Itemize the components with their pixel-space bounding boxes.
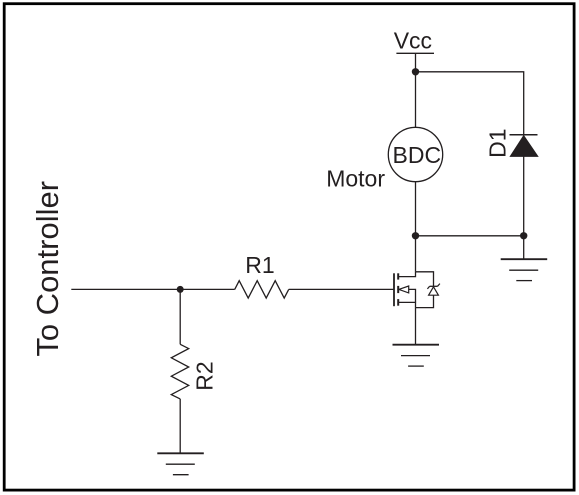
gate bar <box>393 273 395 306</box>
resistor R1 <box>235 281 289 298</box>
ground (under R2) <box>157 453 204 474</box>
body arrow <box>399 286 409 293</box>
ground (under Q1 source) <box>393 345 440 366</box>
body diode return wire <box>416 295 434 307</box>
diode D1 <box>510 135 538 157</box>
wire node D to R1 <box>180 288 235 290</box>
wire Vcc to node A <box>415 53 417 72</box>
wire node A to motor top <box>415 72 417 128</box>
ground (right, under D1 branch) <box>501 259 548 280</box>
drain lead <box>398 272 415 277</box>
wire D1 anode to node C <box>523 156 525 235</box>
wire Q1 source to ground <box>415 308 417 345</box>
svg-text:R2: R2 <box>191 361 217 390</box>
wire node A to D1 cathode <box>416 72 524 135</box>
node D <box>177 286 184 293</box>
channel bar drain segment <box>397 273 399 279</box>
wire node B to node C <box>416 235 524 237</box>
body diode cathode bar <box>430 285 438 287</box>
svg-text:R1: R1 <box>245 252 274 278</box>
wire motor bottom to node B <box>415 182 417 236</box>
wire To Controller to node D <box>71 288 180 290</box>
node C <box>520 232 527 239</box>
body diode cathode bends <box>427 286 429 289</box>
net label Vcc <box>394 28 434 54</box>
node A <box>412 68 419 75</box>
wire R1 to Q1 gate <box>289 288 394 290</box>
body diode branch wire <box>416 272 434 287</box>
body diode triangle <box>429 287 439 295</box>
transistor Q1 (N-MOSFET with body diode) <box>394 272 440 308</box>
svg-text:To Controller: To Controller <box>30 181 65 357</box>
wire node C to ground <box>523 236 525 259</box>
svg-text:Motor: Motor <box>326 166 385 192</box>
wire node B to Q1 drain <box>415 236 417 272</box>
wire node D to R2 <box>179 289 181 344</box>
source lead <box>398 302 415 307</box>
channel bar body segment <box>397 286 399 293</box>
motor M (BDC) <box>388 127 442 181</box>
svg-text:D1: D1 <box>484 128 510 157</box>
channel bar source segment <box>397 299 399 306</box>
svg-text:Vcc: Vcc <box>394 28 432 54</box>
wire R2 to ground <box>179 399 181 453</box>
svg-text:BDC: BDC <box>393 142 442 168</box>
node B <box>412 232 419 239</box>
resistor R2 <box>171 344 188 399</box>
body lead <box>409 289 416 302</box>
